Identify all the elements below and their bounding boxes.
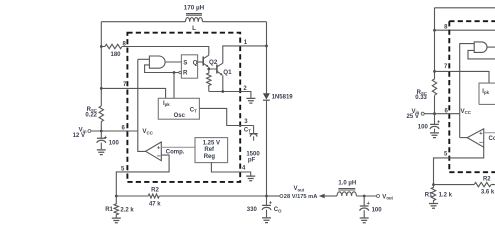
wire Q to Q2 base xyxy=(198,61,203,63)
node Vin junction xyxy=(100,130,103,133)
transistor Q1 xyxy=(216,65,218,74)
wire osc CT to pin 3 xyxy=(199,108,253,125)
node pin7 right junction xyxy=(433,70,436,73)
svg-text:VCC: VCC xyxy=(142,128,153,135)
svg-text:5: 5 xyxy=(444,151,448,157)
capacitor CO xyxy=(266,196,268,217)
ground pin 2 xyxy=(246,98,255,103)
Q1 emitter arrow xyxy=(220,73,223,75)
ground R1 right xyxy=(429,204,438,209)
capacitor CT external xyxy=(253,126,255,141)
svg-text:CO: CO xyxy=(274,207,282,213)
inductor L coil xyxy=(186,17,203,21)
svg-text:330: 330 xyxy=(247,207,258,213)
wire Q2 emitter to Q1 base xyxy=(209,67,217,69)
ground right cap xyxy=(430,133,439,138)
svg-text:47 k: 47 k xyxy=(149,201,161,207)
svg-text:VCC: VCC xyxy=(461,108,472,115)
wire Q1 emitter to pin 2 line xyxy=(222,75,224,91)
svg-text:Co: Co xyxy=(489,136,495,142)
node filter cap junction xyxy=(363,195,366,198)
svg-text:1N5819: 1N5819 xyxy=(272,95,294,101)
ground R1 xyxy=(112,218,121,223)
svg-text:+: + xyxy=(104,135,108,141)
filter inductor core bars xyxy=(338,189,355,191)
wire AND output right xyxy=(487,46,495,48)
svg-text:Ref: Ref xyxy=(204,147,215,153)
capacitor 100 uF input xyxy=(100,131,102,149)
wire comparator net vertical xyxy=(138,59,146,151)
wire bottom R2 line xyxy=(116,195,266,197)
svg-text:Ipk: Ipk xyxy=(163,101,170,107)
Q2 emitter arrow xyxy=(206,65,209,67)
svg-text:28 V/175 mA: 28 V/175 mA xyxy=(284,194,318,200)
svg-text:R1: R1 xyxy=(425,192,433,198)
svg-text:Q: Q xyxy=(193,59,198,66)
wire Vin to pin 6 xyxy=(91,130,138,132)
node pin 1 rail junction xyxy=(265,45,268,48)
diode 1N5819 xyxy=(263,93,270,99)
svg-text:4: 4 xyxy=(242,166,246,172)
node feedback junction xyxy=(115,195,118,198)
ground CO xyxy=(262,218,271,223)
wire ref to pin 4 xyxy=(211,163,250,176)
wire Vin to pin 6 right xyxy=(424,113,460,115)
Ipk Osc box xyxy=(158,98,199,119)
and gate right xyxy=(474,42,487,53)
wire pin 2 line xyxy=(209,91,240,93)
svg-text:180: 180 xyxy=(110,52,121,58)
svg-text:Q1: Q1 xyxy=(223,69,232,76)
svg-text:+: + xyxy=(367,201,371,207)
svg-text:Vout: Vout xyxy=(382,194,393,200)
svg-text:R1: R1 xyxy=(105,207,113,213)
arrow on output line xyxy=(319,194,325,199)
svg-text:0.22: 0.22 xyxy=(85,112,97,118)
wire R2 line right xyxy=(434,184,495,186)
svg-text:R2: R2 xyxy=(483,177,491,183)
svg-text:Vout: Vout xyxy=(294,186,305,192)
latch box xyxy=(181,55,197,78)
Ipk box right xyxy=(479,83,495,104)
resistor 180 xyxy=(101,44,122,48)
svg-text:+: + xyxy=(479,131,483,137)
wire Q1 collector to pin 1 xyxy=(223,46,267,63)
resistor R1 xyxy=(114,196,118,217)
dashed IC box xyxy=(127,33,240,182)
wire arrow to filter inductor xyxy=(325,195,337,197)
node pin8 right junction xyxy=(433,29,436,32)
resistor RSC right xyxy=(432,79,436,95)
svg-text:CT: CT xyxy=(190,107,197,113)
svg-text:3.6 k: 3.6 k xyxy=(481,190,495,196)
svg-text:2.2 k: 2.2 k xyxy=(120,207,134,213)
resistor RSC xyxy=(99,106,103,122)
comparator xyxy=(146,142,162,161)
svg-text:1.2 k: 1.2 k xyxy=(439,192,453,198)
wire top rail xyxy=(101,21,266,23)
resistor R2 xyxy=(148,194,159,198)
wire inductor to Vout right xyxy=(356,195,376,197)
and gate U1 xyxy=(149,56,165,68)
wire AND top input right xyxy=(460,44,475,138)
terminal Vin xyxy=(88,130,91,133)
wire Ipk output xyxy=(173,73,175,99)
svg-text:100: 100 xyxy=(372,207,383,213)
svg-text:7: 7 xyxy=(123,82,127,88)
svg-text:1.25 V: 1.25 V xyxy=(203,141,220,147)
wire pin 2 to ground xyxy=(240,92,251,98)
svg-text:0.33: 0.33 xyxy=(415,95,427,101)
svg-text:3: 3 xyxy=(244,119,248,125)
ground output cap xyxy=(360,218,369,223)
svg-text:1: 1 xyxy=(244,40,248,46)
wire AND output to S xyxy=(165,61,181,63)
wire pin 8 right xyxy=(435,29,495,31)
svg-text:25 V: 25 V xyxy=(407,114,419,120)
svg-text:R: R xyxy=(183,70,188,77)
ref reg box xyxy=(195,138,228,163)
wire to Vout terminal xyxy=(267,195,280,197)
label - comparator right xyxy=(479,141,482,143)
diode rail xyxy=(266,22,268,196)
resistor Q2 emitter xyxy=(207,69,211,92)
svg-text:Reg: Reg xyxy=(204,154,216,160)
wire left rail right xyxy=(434,8,436,114)
comparator right xyxy=(467,129,484,147)
wire pin 8 to Q2 collector xyxy=(122,47,209,56)
node output junction xyxy=(265,195,268,198)
svg-text:12 V: 12 V xyxy=(73,133,85,139)
wire comparator plus to ref right xyxy=(484,132,495,134)
capacitor 100 uF output xyxy=(363,196,365,218)
filter inductor coil xyxy=(337,192,356,196)
svg-text:1500: 1500 xyxy=(246,151,260,157)
transistor Q2 xyxy=(202,57,204,66)
svg-text:L: L xyxy=(192,25,196,32)
terminal Vout right xyxy=(377,195,380,198)
terminal Vout left xyxy=(280,195,283,198)
svg-text:pF: pF xyxy=(248,158,256,164)
dashed IC box right xyxy=(449,21,495,172)
svg-text:Osc: Osc xyxy=(174,113,186,119)
svg-text:+: + xyxy=(269,200,273,206)
node Vin right junction xyxy=(433,112,436,115)
svg-text:+: + xyxy=(157,145,161,151)
wire left rail xyxy=(100,22,102,131)
svg-text:7: 7 xyxy=(444,64,448,70)
wire comparator apex right xyxy=(460,137,468,139)
svg-text:S: S xyxy=(183,59,187,66)
ground pin 4 xyxy=(246,176,255,181)
svg-text:100: 100 xyxy=(418,125,429,131)
resistor R2 right xyxy=(474,182,491,186)
node Q1 emitter junction xyxy=(221,90,224,93)
svg-text:CT: CT xyxy=(244,127,251,133)
node Q2 emitter junction xyxy=(207,68,210,71)
wire top rail right xyxy=(435,7,495,9)
R input bubble xyxy=(179,71,182,74)
node pin8 junction xyxy=(100,45,103,48)
resistor R1 right xyxy=(431,185,435,203)
wire AND top input xyxy=(138,58,150,60)
wire comparator minus to pin 5 xyxy=(116,155,169,196)
node feedback right junction xyxy=(432,183,435,186)
wire AND bottom input xyxy=(145,65,179,73)
terminal Vin right xyxy=(421,112,424,115)
svg-text:Ipk: Ipk xyxy=(482,89,489,95)
svg-text:R2: R2 xyxy=(151,187,159,193)
node Ipk-R junction xyxy=(173,71,176,74)
wire pin 7 to Ipk xyxy=(101,88,165,98)
inductor L core bars xyxy=(186,14,202,16)
svg-text:100: 100 xyxy=(109,141,120,147)
svg-text:1.0 µH: 1.0 µH xyxy=(338,180,356,186)
wire pin 7 right xyxy=(435,71,490,83)
ground input cap xyxy=(97,150,106,155)
svg-text:170 µH: 170 µH xyxy=(184,4,205,11)
wire AND bottom input right xyxy=(468,50,495,59)
svg-text:+: + xyxy=(437,119,441,125)
capacitor 100 uF right xyxy=(434,114,436,133)
label - comparator xyxy=(157,155,160,157)
wire comparator minus to pin 5 right xyxy=(434,147,484,184)
node pin7 junction xyxy=(100,87,103,90)
wire comparator plus to ref xyxy=(161,146,195,148)
